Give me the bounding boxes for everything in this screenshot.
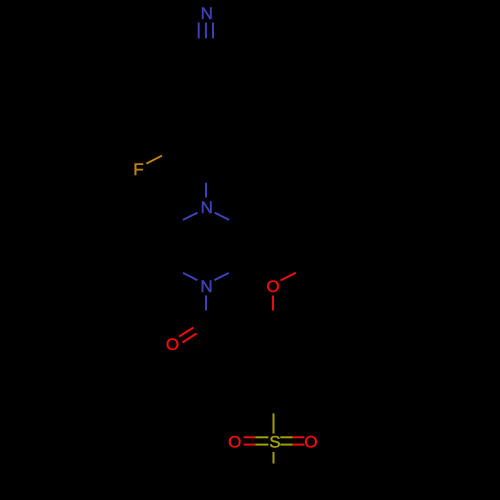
S=O left double bond, S halves	[255, 436, 268, 438]
bond N1 to C2 (down-right)	[215, 213, 230, 220]
piperazine N1 label (top)	[201, 198, 213, 217]
bond S to ring C (up)	[273, 413, 275, 433]
nitrile triple bond (blue half)	[199, 23, 213, 39]
S=O double bonds, O halves (red)	[244, 437, 305, 444]
nitrile N label	[201, 4, 213, 23]
svg-text:O: O	[228, 432, 241, 451]
methoxy O label	[266, 277, 279, 296]
svg-text:N: N	[200, 277, 212, 296]
piperazine N4 label (bottom)	[200, 277, 212, 296]
C-F bond (F half)	[146, 156, 162, 164]
svg-text:N: N	[201, 198, 213, 217]
bond N1 to benzyl carbon (up)	[205, 183, 207, 198]
sulfonyl O left label	[228, 432, 241, 451]
piperazine N4 bonds (blue halves)	[183, 273, 229, 311]
bond N4 to carbonyl C (down)	[205, 295, 207, 310]
bond O to ring C (down)	[272, 296, 274, 311]
fluorine F label	[133, 160, 143, 179]
piperazine N1 bonds (blue halves)	[183, 183, 229, 220]
svg-text:S: S	[269, 433, 280, 452]
bond O to methyl (up-right)	[281, 273, 296, 281]
S bonds (olive halves)	[255, 413, 292, 463]
bond N4 to C3 (up-right)	[214, 273, 229, 280]
bond N4 to C5 (up-left)	[183, 273, 197, 280]
svg-text:N: N	[201, 4, 213, 23]
svg-text:F: F	[133, 160, 143, 179]
svg-text:O: O	[304, 432, 317, 451]
svg-text:O: O	[266, 277, 279, 296]
bond S to methyl (down)	[273, 452, 275, 464]
sulfonyl S label	[269, 433, 280, 452]
bond N1 to C6 (down-left)	[183, 213, 198, 220]
S=O right double bond, S halves	[280, 436, 292, 438]
sulfonyl O right label	[304, 432, 317, 451]
methoxy O bonds (red halves)	[273, 273, 296, 311]
svg-text:O: O	[166, 335, 179, 354]
C=O double bond (red halves)	[179, 328, 197, 343]
carbonyl O label	[166, 335, 179, 354]
